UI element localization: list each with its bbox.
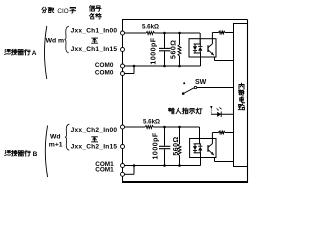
svg-text:COM1: COM1 xyxy=(95,167,114,174)
terminal COM1 row2 xyxy=(121,172,125,176)
capacitor 1000pF (top) xyxy=(164,33,166,48)
svg-text:5.6kΩ: 5.6kΩ xyxy=(142,24,159,31)
node: cap bottom junction top xyxy=(163,65,166,68)
wire: bottom rail xyxy=(122,181,248,183)
terminal In15 (Ch2) xyxy=(121,145,125,149)
resistor collector (bottom) xyxy=(219,131,226,134)
svg-text:SW: SW xyxy=(195,79,207,86)
brace: small brace block A xyxy=(64,26,68,53)
terminal COM1 row1 xyxy=(121,164,125,168)
label: signal name header (信号/名称) xyxy=(89,6,94,12)
terminal In00 (Ch2) xyxy=(121,125,125,129)
terminal In00 (Ch1) xyxy=(121,31,125,35)
svg-text:A: A xyxy=(32,50,37,57)
wire: top rail xyxy=(122,19,248,21)
brace: small brace block B xyxy=(65,124,69,150)
wire: COM0 rail xyxy=(124,65,201,67)
wire: collector riser (bottom) xyxy=(211,133,213,139)
svg-text:Jxx_Ch1_In00: Jxx_Ch1_In00 xyxy=(71,28,118,35)
wire: emitter (bottom) xyxy=(214,158,216,162)
svg-text:Wd m: Wd m xyxy=(46,38,65,45)
svg-text:CIO: CIO xyxy=(57,8,68,15)
wire: opto input riser (top) xyxy=(199,33,201,44)
svg-text:Jxx_Ch1_In15: Jxx_Ch1_In15 xyxy=(71,46,118,53)
svg-text:560Ω: 560Ω xyxy=(173,136,180,155)
wire: connector vertical line xyxy=(122,20,124,183)
node: 560 top junction xyxy=(178,32,181,35)
terminal COM0 row1 xyxy=(121,64,125,68)
resistor 5.6k-ohm (top) xyxy=(146,32,155,35)
svg-text:1000pF: 1000pF xyxy=(150,37,157,64)
internal circuit bar xyxy=(234,24,248,167)
resistor 5.6k-ohm (bottom) xyxy=(145,126,154,129)
opto LED pair (top) xyxy=(194,43,201,45)
label: internal circuit (内部电路) vertical xyxy=(239,83,244,89)
optocoupler box (bottom) xyxy=(190,139,216,158)
wire: COM0 row2 link xyxy=(124,73,134,75)
node: COM0 link junction xyxy=(133,65,136,68)
wire: In00 Ch2 row xyxy=(124,126,145,128)
label: connector row A (连接器行 A) xyxy=(5,49,11,54)
opto LED pair (bottom) xyxy=(194,143,201,145)
terminal In15 (Ch1) xyxy=(121,48,125,52)
node: 560 top junction B xyxy=(178,126,181,129)
label: connector row B (连接器行 B) xyxy=(5,151,11,156)
brace: big parenthesis block A xyxy=(45,26,47,79)
label: assigned CIO word header (分配 CIO 字) xyxy=(42,7,47,13)
terminal COM0 row2 xyxy=(121,72,125,76)
svg-text:560Ω: 560Ω xyxy=(171,40,178,59)
node: COM1 link junction xyxy=(133,164,136,167)
resistor 560-ohm (bottom) xyxy=(179,127,181,144)
opto phototransistor (bottom) xyxy=(207,145,209,152)
label: input indicator (输入指示灯) xyxy=(168,108,174,114)
optocoupler box (top) xyxy=(189,39,216,57)
svg-text:Jxx_Ch2_In15: Jxx_Ch2_In15 xyxy=(71,143,118,150)
wire: collector to bar (bottom) xyxy=(225,132,234,134)
label: 至 (to) xyxy=(92,38,98,43)
resistor 560-ohm (top) xyxy=(179,33,181,45)
wire: COM1 riser into opto xyxy=(200,153,202,166)
wire: In00 Ch1 row xyxy=(124,32,146,34)
capacitor 1000pF (bottom) xyxy=(164,127,166,146)
node: 560 bottom junction top xyxy=(178,65,181,68)
svg-text:B: B xyxy=(33,151,38,158)
svg-text:1000pF: 1000pF xyxy=(153,132,160,159)
node: cap top junction B xyxy=(163,126,166,129)
indicator leader arrow xyxy=(210,106,212,109)
label: 至 (to) block B xyxy=(92,137,98,142)
wire: collector riser (top) xyxy=(211,33,213,39)
wire: collector to bar (top) xyxy=(225,32,234,34)
svg-text:5.6kΩ: 5.6kΩ xyxy=(143,118,160,125)
wire: COM0 riser into opto xyxy=(200,53,202,66)
svg-text:Wd: Wd xyxy=(50,133,61,140)
svg-text:m+1: m+1 xyxy=(49,142,63,149)
node: cap bottom junction B xyxy=(163,164,166,167)
wire: emitter (top) xyxy=(214,57,216,61)
node: cap top junction xyxy=(163,32,166,35)
wire: COM1 rail xyxy=(124,165,201,167)
opto phototransistor (top) xyxy=(207,45,209,52)
wire: opto input riser (bottom) xyxy=(199,127,201,144)
wire: COM1 row2 link xyxy=(124,173,134,175)
wire: right vertical line xyxy=(247,20,249,183)
resistor collector (top) xyxy=(219,31,226,34)
svg-text:COM0: COM0 xyxy=(95,62,114,69)
node: 560 bottom junction B xyxy=(178,164,181,167)
brace: big parenthesis block B xyxy=(45,126,47,178)
svg-text:COM0: COM0 xyxy=(95,69,114,76)
svg-text:Jxx_Ch2_In00: Jxx_Ch2_In00 xyxy=(71,127,118,134)
LED input indicator xyxy=(211,113,234,115)
switch SW xyxy=(182,92,185,95)
